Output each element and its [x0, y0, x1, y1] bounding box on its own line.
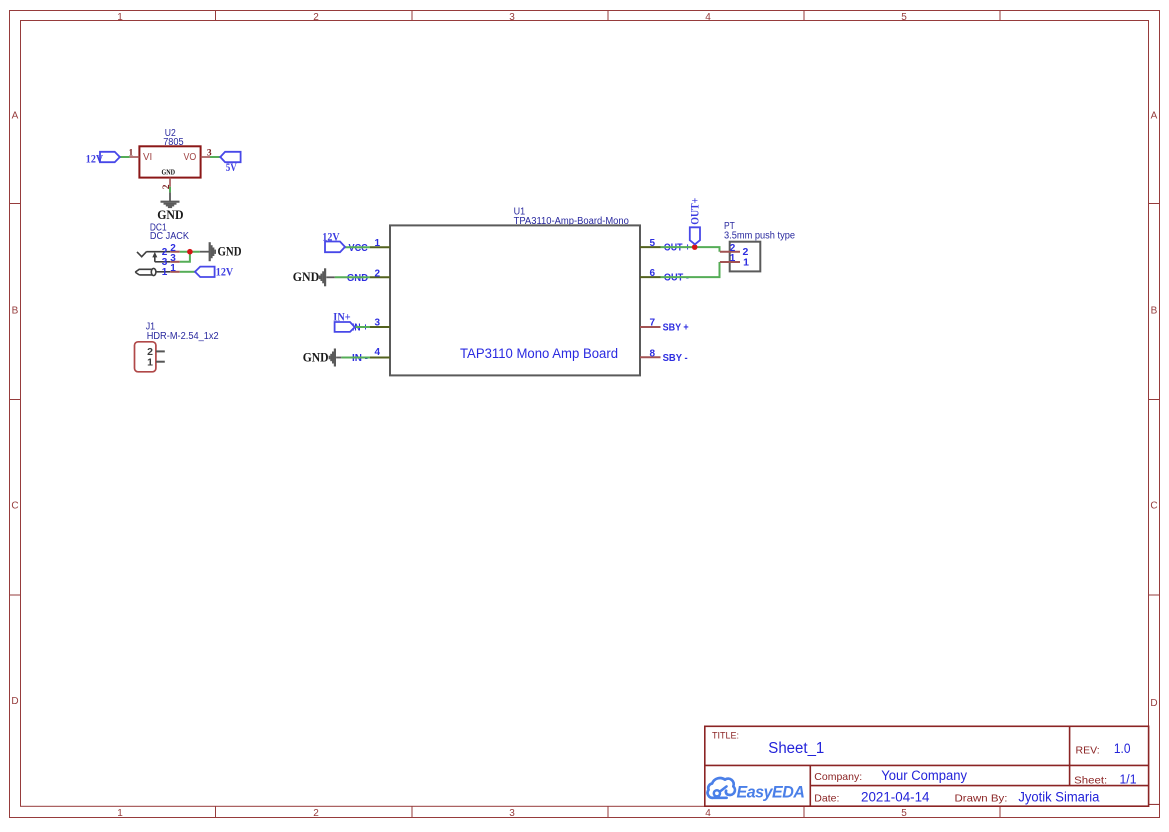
- svg-text:4: 4: [374, 347, 380, 358]
- svg-text:5: 5: [649, 238, 655, 249]
- svg-text:1: 1: [170, 263, 176, 274]
- svg-text:1: 1: [743, 256, 749, 268]
- net flag IN+: [333, 309, 355, 332]
- svg-text:Jyotik Simaria: Jyotik Simaria: [1018, 790, 1099, 805]
- wire DC1 pin3 up to junction: [180, 252, 190, 262]
- svg-text:1: 1: [117, 12, 123, 23]
- net flag 12V (DC1): [195, 265, 233, 279]
- svg-text:GND: GND: [293, 270, 319, 284]
- svg-text:2: 2: [313, 808, 319, 819]
- svg-text:VI: VI: [143, 151, 152, 163]
- svg-text:GND: GND: [162, 169, 176, 177]
- PT reference label: [724, 221, 795, 241]
- svg-text:DC JACK: DC JACK: [150, 231, 189, 242]
- svg-text:Your Company: Your Company: [881, 768, 967, 783]
- ground symbol GND (right of DC1): [200, 242, 215, 261]
- DC1 pin 1: [162, 263, 180, 278]
- svg-text:Drawn By:: Drawn By:: [955, 793, 1008, 805]
- junction (OUT+ net): [692, 244, 698, 250]
- svg-text:2021-04-14: 2021-04-14: [861, 790, 930, 805]
- svg-text:D: D: [11, 696, 18, 707]
- svg-text:HDR-M-2.54_1x2: HDR-M-2.54_1x2: [147, 331, 219, 342]
- wire GND to U1 pin2: [335, 276, 370, 278]
- U2 pin 1: [129, 148, 140, 158]
- U1 reference label: [514, 206, 630, 227]
- DC1 pin 2: [162, 243, 180, 258]
- svg-text:1: 1: [147, 357, 153, 369]
- U2 pin 2: [162, 178, 172, 190]
- svg-text:1.0: 1.0: [1114, 740, 1131, 756]
- U1 pin 4 IN-: [352, 347, 390, 364]
- title block values: [768, 740, 1136, 805]
- svg-text:2: 2: [313, 12, 319, 23]
- DC1 pin 3: [162, 253, 180, 268]
- wire DC1 pin1 to 12V: [180, 271, 195, 273]
- EasyEDA logo: [708, 778, 805, 801]
- module U1 body: [390, 225, 640, 375]
- svg-text:12V: 12V: [322, 229, 340, 243]
- wire GND to U1 pin4: [341, 357, 370, 359]
- svg-text:5: 5: [901, 12, 907, 23]
- U1 pin 6 OUT-: [640, 268, 689, 284]
- svg-text:B: B: [1151, 306, 1158, 317]
- wire IN+ to U1 pin3: [355, 326, 370, 328]
- svg-text:GND: GND: [157, 207, 183, 222]
- U2 reference label: [163, 128, 184, 148]
- svg-text:4: 4: [705, 808, 711, 819]
- J1 pin 2: [147, 346, 165, 358]
- PT pin 1: [720, 253, 749, 268]
- regulator U2 body: [139, 146, 200, 177]
- DC1 switch arrowhead: [152, 252, 157, 258]
- svg-text:8: 8: [649, 348, 655, 359]
- wire OUT+ to PT pin2: [661, 247, 720, 252]
- svg-text:12V: 12V: [216, 265, 234, 279]
- svg-text:C: C: [1150, 501, 1157, 512]
- svg-text:A: A: [1151, 111, 1158, 122]
- wire U2 pin2 to GND: [169, 187, 171, 193]
- svg-text:SBY -: SBY -: [663, 352, 688, 364]
- svg-text:D: D: [1150, 698, 1157, 709]
- frame row labels left: [11, 111, 18, 708]
- net flag 12V (input): [86, 152, 120, 166]
- svg-text:1: 1: [730, 253, 736, 264]
- svg-text:1: 1: [117, 808, 123, 819]
- wire 12V to U2 pin1: [120, 156, 130, 158]
- svg-text:1/1: 1/1: [1120, 772, 1137, 787]
- svg-text:SBY +: SBY +: [663, 322, 689, 334]
- svg-text:2: 2: [374, 269, 380, 280]
- svg-text:TITLE:: TITLE:: [712, 731, 739, 741]
- title block labels: [712, 731, 1107, 805]
- U1 pin 2 GND: [347, 269, 390, 284]
- U1 pin 5 OUT+: [640, 238, 690, 254]
- svg-text:5: 5: [901, 808, 907, 819]
- wire DC1 pin2 to GND: [180, 251, 200, 253]
- DC1 reference label: [150, 222, 189, 242]
- svg-text:Date:: Date:: [814, 793, 839, 805]
- J1 pin 1: [147, 357, 165, 369]
- svg-text:3: 3: [509, 808, 515, 819]
- svg-text:7805: 7805: [163, 137, 184, 148]
- svg-text:1: 1: [374, 238, 380, 249]
- svg-text:3: 3: [374, 318, 380, 329]
- net flag 12V (U1 VCC): [322, 229, 345, 252]
- title block: [705, 726, 1160, 806]
- frame column labels bottom: [117, 808, 907, 819]
- svg-text:5V: 5V: [226, 160, 237, 174]
- ground symbol GND (below U2): [161, 192, 180, 207]
- svg-text:Company:: Company:: [814, 771, 862, 783]
- header J1 body: [135, 342, 156, 372]
- svg-text:3: 3: [509, 12, 515, 23]
- svg-text:Sheet_1: Sheet_1: [768, 740, 824, 757]
- svg-text:1: 1: [162, 267, 168, 278]
- svg-text:EasyEDA: EasyEDA: [737, 783, 805, 802]
- U1 pin 8 SBY-: [640, 348, 688, 364]
- wire U2 pin3 to 5V: [210, 156, 220, 158]
- junction (DC1 GND net): [187, 249, 193, 255]
- connector PT body: [730, 242, 761, 272]
- svg-text:IN+: IN+: [333, 309, 351, 323]
- net flag 5V: [220, 152, 240, 174]
- svg-text:OUT+: OUT+: [688, 198, 702, 225]
- U1 pin 3 IN+: [352, 318, 390, 334]
- DC jack DC1 body: [135, 251, 170, 275]
- U2 pin 3: [201, 148, 212, 158]
- ground symbol GND (U1 pin2): [320, 268, 335, 286]
- svg-text:REV:: REV:: [1076, 745, 1100, 757]
- wire 12V to U1 VCC: [345, 246, 370, 248]
- svg-text:C: C: [11, 501, 18, 512]
- PT pin 2: [720, 243, 749, 258]
- frame row labels right: [1150, 111, 1157, 710]
- svg-text:Sheet:: Sheet:: [1074, 775, 1107, 787]
- svg-text:7: 7: [649, 318, 655, 329]
- svg-text:3.5mm push type: 3.5mm push type: [724, 231, 795, 242]
- svg-text:6: 6: [649, 268, 655, 279]
- svg-text:A: A: [12, 111, 19, 122]
- frame column labels top: [117, 12, 907, 23]
- U1 pin 7 SBY+: [640, 318, 689, 334]
- svg-text:GND: GND: [303, 350, 329, 364]
- svg-text:VO: VO: [184, 151, 197, 163]
- svg-text:B: B: [12, 306, 19, 317]
- svg-text:12V: 12V: [86, 152, 104, 166]
- net flag OUT+: [688, 198, 702, 245]
- ground symbol GND (U1 pin4): [330, 349, 342, 367]
- wire OUT- to PT pin1: [661, 262, 720, 277]
- svg-text:4: 4: [705, 12, 711, 23]
- U1 pin 1 VCC: [349, 238, 391, 254]
- J1 reference label: [146, 322, 219, 343]
- svg-text:GND: GND: [218, 245, 242, 259]
- svg-text:TAP3110 Mono Amp Board: TAP3110 Mono Amp Board: [460, 346, 618, 361]
